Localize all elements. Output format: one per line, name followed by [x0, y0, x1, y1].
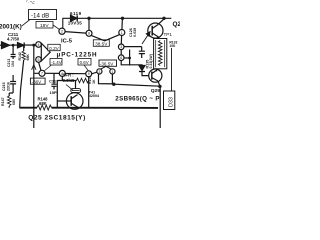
svg-text:R142: R142: [18, 52, 22, 60]
svg-text:-36.5V: -36.5V: [100, 61, 114, 66]
trimmer resistor body: [71, 89, 81, 93]
node E: [128, 57, 131, 60]
svg-text:104: 104: [11, 61, 15, 67]
wire pin row: [34, 72, 97, 74]
svg-text:1K: 1K: [92, 79, 96, 84]
input arrow: [2, 42, 10, 49]
IC pin 8 circle: [86, 30, 92, 36]
gain label box -14dB: [29, 10, 57, 20]
svg-text:0.2V: 0.2V: [49, 46, 59, 51]
op-amp U1a triangle: [41, 43, 50, 61]
svg-text:SFR :: SFR :: [63, 72, 75, 77]
svg-text:-1.4V: -1.4V: [51, 60, 62, 65]
resistor block box: [154, 39, 167, 69]
voltage label box -36V: [30, 78, 45, 84]
IC bottom pin circles: [39, 70, 45, 76]
svg-text:6119: 6119: [70, 11, 82, 16]
voltage label box 38.5V: [93, 40, 109, 47]
wire pin to frame: [61, 76, 63, 80]
node junction B: [121, 17, 124, 20]
node H: [112, 83, 115, 86]
wire from op-amp pin down: [39, 62, 41, 70]
wire V junction to output node: [91, 35, 119, 41]
svg-text:42004: 42004: [89, 94, 100, 98]
diode D33 box: [164, 91, 175, 110]
svg-text:μPC-1225H: μPC-1225H: [57, 51, 98, 58]
svg-text:10K: 10K: [169, 44, 176, 48]
leader wire from -14dB box: [22, 20, 31, 27]
node G: [32, 44, 35, 47]
svg-text:-14 dB: -14 dB: [31, 12, 49, 19]
Q25 sub-circuit frame wires: [57, 77, 88, 108]
svg-text:2: 2: [61, 30, 63, 34]
IC pin 6 circle: [118, 55, 124, 61]
svg-text:5: 5: [38, 58, 40, 62]
svg-text:4.7/50: 4.7/50: [7, 36, 20, 41]
resistor R147: [8, 93, 10, 108]
op-amp U1a input pin circles: [36, 42, 42, 48]
wire long vertical: [33, 45, 35, 128]
svg-text:Q29: Q29: [151, 88, 161, 94]
wire bottom horizontal: [114, 84, 160, 86]
svg-text:2001(K): 2001(K): [0, 23, 22, 30]
node junction A: [87, 17, 90, 20]
wire emitter to node I: [158, 81, 160, 86]
svg-text:0.6V: 0.6V: [80, 60, 89, 65]
arrow on vertical wire: [32, 65, 36, 70]
svg-text:68K: 68K: [39, 101, 47, 106]
diode D21: [18, 43, 25, 48]
leader wire to pin 2: [53, 25, 60, 30]
wiper arrow: [66, 85, 73, 91]
svg-text:38.5V: 38.5V: [95, 41, 108, 46]
IC pin 2 circle: [59, 28, 65, 34]
svg-text:TP1: TP1: [164, 32, 173, 37]
svg-text:Q2: Q2: [173, 21, 181, 28]
wire: [121, 18, 124, 29]
svg-text:2SB965(Q ~ P: 2SB965(Q ~ P: [115, 95, 160, 102]
svg-text:C210: C210: [0, 55, 1, 63]
wire elbow to D32: [121, 61, 142, 66]
wire between pins: [65, 32, 86, 33]
ground rail bottom: [19, 107, 158, 109]
svg-text:6: 6: [120, 56, 122, 60]
wire lambda leaders to -36.5V node: [100, 66, 111, 69]
input wire: [0, 44, 36, 46]
diode D32: [139, 66, 145, 71]
transistor Q27: [148, 23, 163, 38]
svg-text:10V35: 10V35: [68, 21, 83, 26]
voltage label box 0.2V: [48, 44, 60, 50]
node I: [158, 85, 161, 88]
svg-text:8: 8: [88, 32, 90, 36]
svg-text:7: 7: [41, 72, 43, 76]
svg-text:680: 680: [12, 99, 16, 105]
node F: [12, 44, 15, 47]
wire: [88, 18, 90, 30]
wire pin loop to node H: [99, 74, 114, 84]
svg-text:-36V: -36V: [32, 79, 42, 84]
diode D119: [71, 15, 78, 21]
wire top rail: [63, 18, 172, 28]
IC pin 1 circle: [119, 30, 125, 36]
svg-text:15P: 15P: [50, 90, 57, 95]
svg-text:68K: 68K: [26, 54, 30, 61]
svg-text:⌜·⌥: ⌜·⌥: [26, 0, 36, 5]
svg-text:R147: R147: [1, 97, 5, 106]
capacitor C126 wire: [129, 50, 131, 66]
wire: [121, 47, 142, 55]
resistor R142: [23, 45, 25, 51]
wire right vertical to D33: [171, 48, 173, 91]
voltage label box -1.4V: [50, 59, 62, 66]
svg-text:IC-5: IC-5: [61, 39, 73, 45]
svg-text:D33: D33: [168, 97, 174, 107]
capacitor C128: [139, 47, 145, 58]
transistor Q25: [66, 93, 83, 110]
svg-text:0.039: 0.039: [133, 28, 137, 37]
svg-text:3: 3: [98, 70, 100, 74]
node junction C: [162, 17, 165, 20]
wire emitter to box: [155, 37, 159, 39]
svg-text:1: 1: [121, 31, 123, 35]
capacitor C215: [9, 75, 16, 93]
voltage label box -36.5V: [99, 60, 117, 66]
wire: [124, 57, 130, 59]
resistor on top wire: [77, 78, 89, 83]
svg-text:18V: 18V: [40, 23, 49, 29]
svg-text:3.3kΩ: 3.3kΩ: [63, 78, 75, 83]
svg-text:C215: C215: [2, 82, 6, 91]
voltage label box 18V: [36, 22, 53, 29]
voltage label box 0.6V: [78, 59, 91, 66]
IC pin numbers: [38, 30, 123, 77]
base feed arrow: [142, 33, 150, 44]
wire from pin1 down: [120, 36, 122, 45]
svg-text:3: 3: [120, 45, 122, 49]
svg-text:0.33(1W): 0.33(1W): [149, 54, 153, 68]
capacitor C218: [11, 45, 16, 59]
svg-text:22/16: 22/16: [7, 82, 11, 91]
IC pin circle mid: [118, 44, 124, 50]
wire down past D33: [159, 86, 161, 128]
transistor Q29: [149, 69, 162, 82]
resistor R148: [37, 105, 52, 110]
svg-text:4: 4: [38, 43, 40, 47]
svg-text:1: 1: [111, 70, 113, 74]
svg-text:Q25 2SC1815(Y): Q25 2SC1815(Y): [28, 114, 86, 121]
